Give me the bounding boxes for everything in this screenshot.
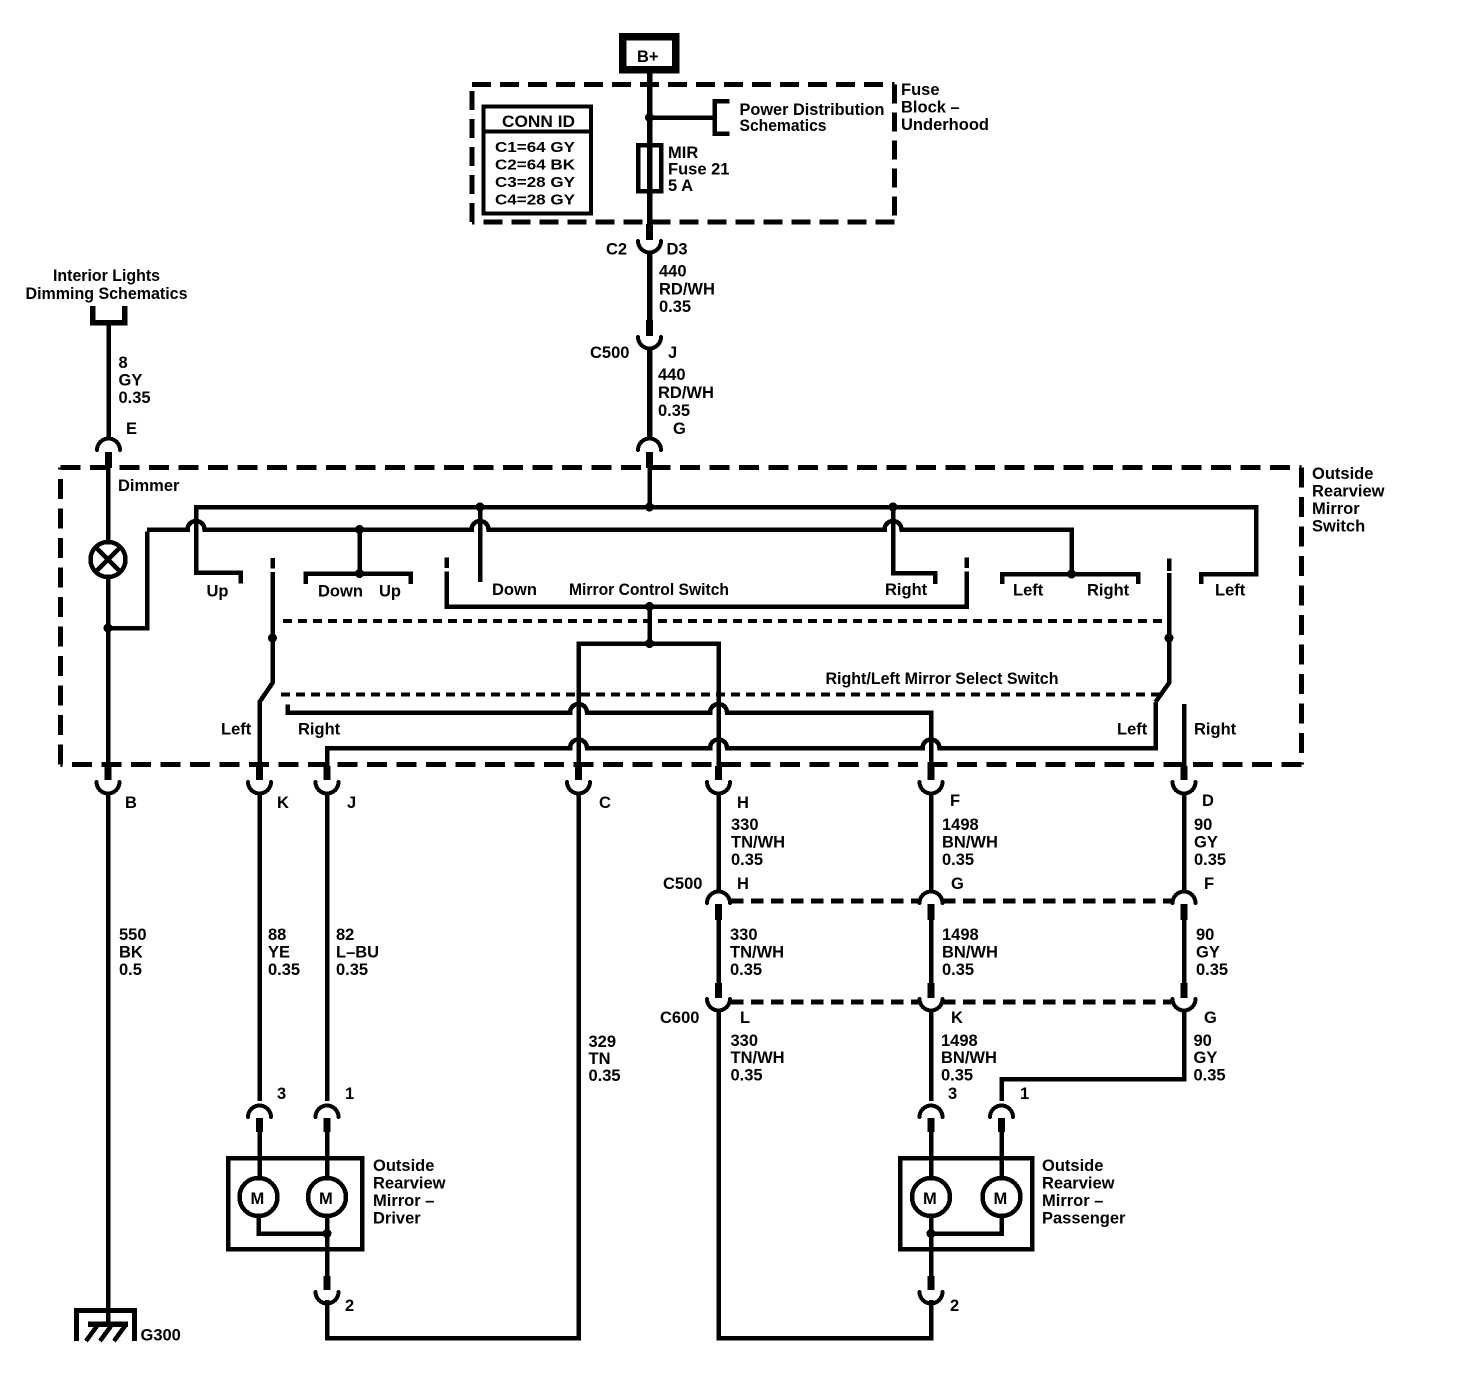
svg-text:GY: GY — [119, 372, 143, 390]
mechanical link dotted line select switch — [281, 693, 1160, 697]
wire 440 RD/WH segment 2 — [647, 348, 653, 438]
junction dot on left select pole — [268, 634, 277, 643]
svg-text:0.35: 0.35 — [659, 298, 691, 316]
off-page reference Interior Lights Dimming Schematics — [26, 267, 188, 323]
mechanical link dash right pole — [964, 558, 969, 569]
svg-text:Fuse 21: Fuse 21 — [668, 161, 729, 179]
label 440 RD/WH 0.35 — [658, 366, 714, 420]
svg-text:G: G — [673, 420, 686, 438]
label 1498 BN/WH 0.35 — [941, 1032, 997, 1085]
label 90 GY 0.35 — [1196, 926, 1228, 979]
junction dot dimmer tap — [104, 624, 113, 633]
label 90 GY 0.35 — [1194, 816, 1226, 869]
junction dot on bus1 at Right bracket — [889, 503, 898, 512]
svg-text:Schematics: Schematics — [740, 117, 827, 135]
svg-text:CONN ID: CONN ID — [502, 113, 575, 131]
label 330 TN/WH 0.35 — [731, 1032, 785, 1085]
wire 330 TN/WH L to passenger pin 2 — [719, 1010, 932, 1338]
svg-text:J: J — [347, 794, 356, 812]
svg-text:YE: YE — [268, 944, 290, 962]
svg-text:TN: TN — [589, 1050, 611, 1068]
connector passenger mirror pin 1 — [990, 1085, 1029, 1132]
wire branch to power distribution — [650, 115, 715, 120]
label 1498 BN/WH 0.35 — [942, 926, 998, 979]
svg-text:5 A: 5 A — [668, 177, 693, 195]
svg-text:Interior Lights: Interior Lights — [53, 267, 160, 285]
svg-text:0.35: 0.35 — [1194, 851, 1226, 869]
svg-text:C600: C600 — [660, 1009, 699, 1027]
svg-text:Mirror –: Mirror – — [1042, 1192, 1103, 1210]
connector ID table CONN ID — [484, 107, 592, 214]
svg-text:Outside: Outside — [1312, 465, 1373, 483]
svg-text:Passenger: Passenger — [1042, 1210, 1126, 1228]
svg-text:329: 329 — [589, 1033, 617, 1051]
fuse block underhood dashed box — [472, 85, 895, 223]
svg-text:TN/WH: TN/WH — [731, 834, 785, 852]
wire E to dimmer lamp — [106, 468, 111, 543]
svg-text:BN/WH: BN/WH — [942, 834, 998, 852]
svg-text:G300: G300 — [141, 1327, 181, 1345]
svg-text:0.35: 0.35 — [336, 961, 368, 979]
bus wire 2 with crossover hops — [147, 521, 1072, 574]
wire 90 GY G to passenger pin 1 — [1002, 1010, 1185, 1101]
svg-text:C: C — [599, 794, 611, 812]
svg-text:GY: GY — [1196, 944, 1220, 962]
svg-text:3: 3 — [277, 1085, 286, 1103]
svg-text:J: J — [668, 344, 677, 362]
wire lamp to junction and down to B — [106, 577, 111, 768]
motor M passenger horizontal — [983, 1178, 1021, 1216]
outside rearview mirror passenger box — [900, 1158, 1032, 1249]
wire pin 3 into passenger mirror — [929, 1130, 934, 1179]
svg-text:Rearview: Rearview — [1312, 483, 1385, 501]
svg-text:B: B — [125, 794, 137, 812]
svg-text:88: 88 — [268, 926, 286, 944]
svg-text:H: H — [737, 875, 749, 893]
svg-text:8: 8 — [119, 354, 128, 372]
mechanical link dash left pole — [444, 558, 449, 569]
svg-text:Mirror: Mirror — [1312, 500, 1360, 518]
svg-text:Driver: Driver — [373, 1210, 421, 1228]
wire passenger motors common — [931, 1216, 1002, 1234]
svg-text:BK: BK — [119, 944, 143, 962]
wire bus2 feed from dimmer junction — [108, 532, 147, 629]
connector C500 pin F — [1173, 875, 1215, 920]
motor M passenger vertical — [912, 1178, 950, 1216]
wire 90 GY C500 to C600 — [1182, 918, 1187, 985]
svg-text:F: F — [1204, 875, 1214, 893]
connector C600 pin G — [1173, 983, 1217, 1027]
svg-text:Fuse: Fuse — [901, 81, 940, 99]
svg-text:GY: GY — [1194, 834, 1218, 852]
svg-text:L: L — [740, 1009, 750, 1027]
svg-text:Left: Left — [1013, 582, 1044, 600]
svg-text:G: G — [951, 875, 964, 893]
outside rearview mirror driver box — [228, 1158, 362, 1249]
connector pin J — [316, 766, 357, 812]
connector C500 row dashed line — [731, 899, 1171, 904]
motor M driver horizontal — [308, 1178, 346, 1216]
wire 88 YE K to mirror pin 3 — [257, 794, 262, 1101]
mechanical link dotted line mirror control switch — [283, 619, 1162, 623]
svg-text:C2=64 BK: C2=64 BK — [495, 158, 576, 174]
fuse MIR Fuse 21 5A — [638, 145, 661, 191]
svg-text:Mirror Control Switch: Mirror Control Switch — [569, 581, 729, 599]
connector pin C — [567, 766, 611, 812]
label Outside Rearview Mirror - Driver — [373, 1157, 446, 1228]
svg-text:TN/WH: TN/WH — [730, 944, 784, 962]
wire 1498 BN/WH K to passenger pin 3 — [929, 1010, 934, 1101]
svg-text:0.35: 0.35 — [658, 402, 690, 420]
contact bracket Left Right — [1002, 574, 1138, 584]
svg-text:M: M — [994, 1190, 1008, 1208]
motor M driver vertical — [240, 1178, 278, 1216]
off-page reference bracket Power Distribution Schematics — [715, 101, 730, 134]
wire B+ feed down through fuse block — [647, 73, 653, 224]
svg-text:330: 330 — [731, 816, 759, 834]
wire 330 TN/WH H to C500 — [716, 794, 721, 891]
connector pin G into switch — [638, 420, 686, 468]
svg-text:330: 330 — [730, 926, 758, 944]
svg-text:GY: GY — [1194, 1049, 1218, 1067]
svg-text:Right: Right — [1194, 721, 1237, 739]
svg-text:D3: D3 — [667, 241, 688, 259]
svg-text:1: 1 — [345, 1085, 354, 1103]
wire pin 1 into passenger mirror — [999, 1130, 1004, 1179]
wire passenger left motor to pin 2 — [929, 1216, 934, 1278]
wire 330 TN/WH C500 to C600 — [716, 918, 721, 985]
wire feed G to bus1 — [647, 468, 652, 509]
wire driver motors common — [259, 1216, 328, 1234]
label 330 TN/WH 0.35 — [731, 816, 785, 869]
svg-text:550: 550 — [119, 926, 147, 944]
wire 90 GY D to C500 — [1182, 794, 1187, 891]
label 8 GY 0.35 — [119, 354, 151, 407]
svg-text:330: 330 — [731, 1032, 759, 1050]
svg-text:G: G — [1204, 1009, 1217, 1027]
svg-text:E: E — [126, 420, 137, 438]
wire bus2 tap to Down Up bracket — [357, 530, 362, 574]
wire 550 BK to ground — [106, 794, 111, 1324]
wire pin 3 into driver mirror — [257, 1130, 262, 1179]
svg-text:Down: Down — [492, 581, 537, 599]
svg-text:Down: Down — [318, 583, 363, 601]
svg-text:Right/Left Mirror Select Switc: Right/Left Mirror Select Switch — [826, 670, 1059, 688]
svg-text:0.35: 0.35 — [942, 851, 974, 869]
junction dot on bus2 — [355, 525, 364, 534]
svg-text:Block –: Block – — [901, 99, 960, 117]
svg-text:Left: Left — [1117, 721, 1148, 739]
connector pin K — [248, 766, 289, 812]
svg-text:Right: Right — [298, 721, 341, 739]
svg-text:0.35: 0.35 — [119, 389, 151, 407]
connector pin E into switch — [97, 420, 137, 468]
svg-text:D: D — [1202, 792, 1214, 810]
svg-text:C2: C2 — [606, 241, 627, 259]
connector pin F — [920, 766, 961, 810]
connector passenger mirror pin 3 — [920, 1085, 958, 1132]
svg-text:0.35: 0.35 — [941, 1067, 973, 1085]
svg-text:RD/WH: RD/WH — [658, 384, 714, 402]
svg-text:C3=28 GY: C3=28 GY — [495, 175, 575, 191]
wire pin 1 into driver mirror — [325, 1130, 330, 1179]
ground G300 — [77, 1311, 181, 1345]
svg-text:1498: 1498 — [941, 1032, 978, 1050]
label Outside Rearview Mirror Switch — [1312, 465, 1385, 536]
svg-text:Underhood: Underhood — [901, 116, 989, 134]
contact bracket Down Up — [306, 574, 411, 585]
svg-text:H: H — [737, 794, 749, 812]
svg-text:Right: Right — [885, 581, 928, 599]
svg-text:RD/WH: RD/WH — [659, 281, 715, 299]
switch pole right select — [1156, 573, 1170, 702]
svg-text:C1=64 GY: C1=64 GY — [495, 140, 575, 156]
junction dot on bus1 at Down stub — [476, 503, 485, 512]
svg-text:Rearview: Rearview — [1042, 1175, 1115, 1193]
svg-text:0.35: 0.35 — [1194, 1067, 1226, 1085]
junction dot select input — [645, 639, 654, 648]
svg-text:M: M — [923, 1190, 937, 1208]
svg-text:M: M — [319, 1190, 333, 1208]
label 1498 BN/WH 0.35 — [942, 816, 998, 869]
svg-text:1498: 1498 — [942, 926, 979, 944]
svg-text:0.35: 0.35 — [731, 1067, 763, 1085]
svg-text:90: 90 — [1194, 1032, 1212, 1050]
svg-text:Left: Left — [1215, 582, 1246, 600]
connector driver mirror pin 2 — [316, 1276, 355, 1315]
junction dot passenger common — [927, 1229, 936, 1238]
wire bus4 J to right select pole — [327, 702, 1156, 768]
connector C600 pin L — [660, 983, 750, 1027]
svg-text:Switch: Switch — [1312, 518, 1365, 536]
svg-text:K: K — [277, 794, 289, 812]
svg-text:440: 440 — [658, 366, 686, 384]
wire 8 GY — [106, 325, 111, 438]
svg-text:K: K — [951, 1009, 963, 1027]
label Power Distribution Schematics — [740, 101, 885, 135]
mirror control switch pole bar — [447, 572, 967, 607]
connector C500 pin G — [920, 875, 964, 920]
svg-text:3: 3 — [948, 1085, 957, 1103]
svg-text:M: M — [251, 1190, 265, 1208]
svg-text:B+: B+ — [637, 48, 659, 66]
svg-text:Left: Left — [221, 721, 252, 739]
svg-text:MIR: MIR — [668, 144, 698, 162]
svg-text:C500: C500 — [590, 344, 629, 362]
dimmer lamp — [91, 542, 126, 577]
svg-text:BN/WH: BN/WH — [941, 1049, 997, 1067]
junction dot on right select pole — [1165, 634, 1174, 643]
switch pole left select to K — [260, 572, 273, 768]
wire 440 RD/WH segment 1 — [647, 252, 653, 322]
junction dot pole bar tap — [645, 602, 654, 611]
svg-text:1498: 1498 — [942, 816, 979, 834]
svg-text:0.35: 0.35 — [268, 961, 300, 979]
label 440 RD/WH 0.35 — [659, 263, 715, 317]
connector C2 / D3 pin — [606, 224, 688, 259]
svg-text:2: 2 — [345, 1297, 354, 1315]
wire 1498 BN/WH F to C500 — [929, 794, 934, 891]
connector C600 pin K — [920, 983, 964, 1027]
connector driver mirror pin 1 — [316, 1085, 355, 1132]
junction dot on Left Right bracket — [1067, 570, 1076, 579]
svg-text:0.35: 0.35 — [730, 961, 762, 979]
svg-text:Right: Right — [1087, 582, 1130, 600]
svg-text:Rearview: Rearview — [373, 1175, 446, 1193]
svg-text:C500: C500 — [663, 875, 702, 893]
battery B+ box — [623, 37, 676, 70]
wire pole bar tap down — [647, 607, 652, 646]
connector C500 pin H — [663, 875, 749, 920]
svg-text:TN/WH: TN/WH — [731, 1049, 785, 1067]
connector pin H — [707, 766, 749, 812]
junction dot at power branch — [645, 113, 654, 122]
wire driver right motor to pin 2 — [325, 1216, 330, 1278]
wire 1498 BN/WH C500 to C600 — [929, 918, 934, 985]
label 82 L-BU 0.35 — [336, 926, 379, 979]
junction dot on Down Up bracket — [355, 569, 364, 578]
connector C500 pin J — [590, 320, 677, 362]
svg-text:90: 90 — [1194, 816, 1212, 834]
contact Down stub — [478, 507, 483, 582]
wire 329 TN C to mirror pin 2 — [327, 794, 579, 1338]
wire bus3 Right contact to F — [288, 704, 932, 768]
svg-text:Mirror –: Mirror – — [373, 1192, 434, 1210]
label 329 TN 0.35 — [589, 1033, 621, 1085]
svg-text:0.35: 0.35 — [731, 851, 763, 869]
junction dot feed on bus1 — [645, 503, 654, 512]
svg-text:Up: Up — [207, 583, 229, 601]
connector pin B — [97, 766, 138, 812]
svg-text:F: F — [950, 792, 960, 810]
label 88 YE 0.35 — [268, 926, 300, 979]
svg-text:C4=28 GY: C4=28 GY — [495, 193, 575, 209]
label Outside Rearview Mirror - Passenger — [1042, 1157, 1126, 1228]
svg-text:90: 90 — [1196, 926, 1214, 944]
wire bus1 with Up contact bracket and far right Left contact bracket — [196, 507, 1256, 584]
svg-text:Outside: Outside — [373, 1157, 434, 1175]
svg-text:0.5: 0.5 — [119, 961, 142, 979]
label Fuse Block - Underhood — [901, 81, 989, 134]
svg-text:1: 1 — [1020, 1085, 1029, 1103]
label 550 BK 0.5 — [119, 926, 147, 979]
svg-text:82: 82 — [336, 926, 354, 944]
select switch input bar and pole wires to C and H — [579, 644, 719, 769]
svg-text:0.35: 0.35 — [1196, 961, 1228, 979]
connector pin D — [1173, 766, 1215, 810]
svg-text:440: 440 — [659, 263, 687, 281]
svg-text:2: 2 — [950, 1297, 959, 1315]
mechanical link dash select pole left — [270, 558, 275, 569]
outside rearview mirror switch dashed box — [61, 468, 1302, 765]
label 90 GY 0.35 — [1194, 1032, 1226, 1085]
connector C600 row dashed line — [731, 1000, 1171, 1005]
contact bracket Right — [893, 507, 935, 584]
connector passenger mirror pin 2 — [920, 1276, 960, 1315]
contact Right stub to D — [1182, 704, 1187, 768]
label MIR Fuse 21 5A — [668, 144, 729, 195]
connector driver mirror pin 3 — [248, 1085, 286, 1132]
label 330 TN/WH 0.35 — [730, 926, 784, 979]
svg-text:L–BU: L–BU — [336, 944, 379, 962]
svg-text:Up: Up — [379, 583, 401, 601]
svg-text:Outside: Outside — [1042, 1157, 1103, 1175]
svg-text:BN/WH: BN/WH — [942, 944, 998, 962]
mechanical link dash select pole right — [1167, 559, 1172, 572]
wire 82 L-BU J to mirror pin 1 — [325, 794, 330, 1101]
svg-text:Dimming Schematics: Dimming Schematics — [26, 285, 188, 303]
svg-text:0.35: 0.35 — [942, 961, 974, 979]
svg-text:0.35: 0.35 — [589, 1067, 621, 1085]
svg-text:Dimmer: Dimmer — [118, 477, 180, 495]
junction dot driver common — [323, 1229, 332, 1238]
